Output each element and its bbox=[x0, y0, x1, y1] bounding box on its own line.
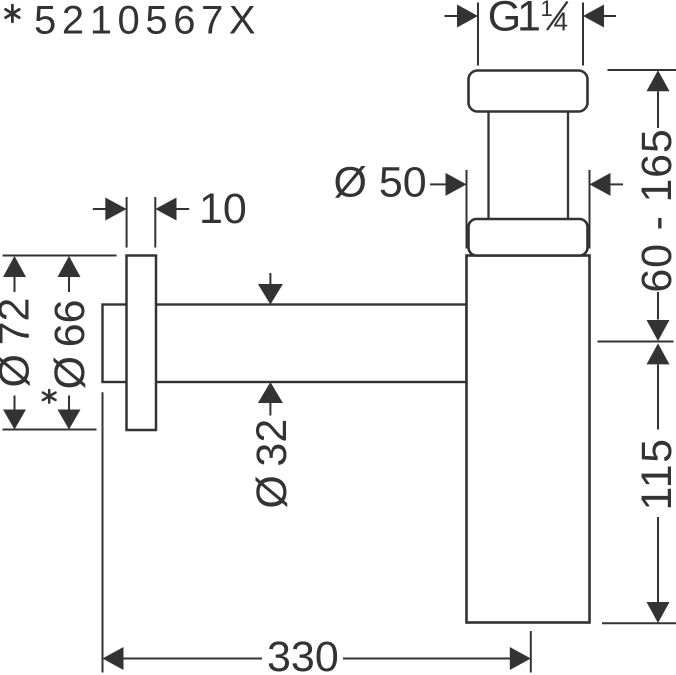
G1 1/4 right extension line bbox=[582, 3, 584, 66]
330 dimension line right segment bbox=[343, 658, 510, 660]
10 left arrowhead bbox=[105, 198, 126, 221]
pipe axis extension line (right side) bbox=[598, 341, 674, 343]
G1 1/4 left leader line bbox=[445, 15, 459, 17]
svg-text:115: 115 bbox=[633, 437, 676, 510]
svg-text:Ø 32: Ø 32 bbox=[248, 419, 296, 509]
svg-text:5210567X: 5210567X bbox=[34, 0, 261, 43]
inlet neck tube bbox=[489, 100, 569, 230]
G1 1/4 left extension line bbox=[477, 3, 479, 66]
10 left leader line bbox=[93, 208, 106, 210]
60-165 top stem bbox=[657, 91, 659, 128]
flange bottom extension line bbox=[3, 429, 97, 431]
330 left extension line (wall reference) bbox=[102, 392, 104, 672]
compression ring nut bbox=[469, 219, 588, 256]
trap body cup bbox=[467, 256, 590, 623]
G1 1/4 fraction slash bbox=[547, 2, 568, 31]
115 top arrowhead bbox=[647, 343, 670, 364]
svg-text:60 - 165: 60 - 165 bbox=[633, 128, 676, 292]
diameter 72 top stem bbox=[14, 277, 16, 292]
footnote asterisk beside diameter 66 bbox=[43, 390, 56, 403]
diameter 50 right extension line bbox=[589, 170, 591, 249]
top cap nut bbox=[469, 71, 588, 112]
svg-text:Ø 50: Ø 50 bbox=[334, 158, 427, 206]
330 right extension line (body centre) bbox=[530, 631, 532, 673]
115 bottom stem bbox=[657, 517, 659, 602]
60-165 bottom stem bbox=[657, 292, 659, 320]
diameter 50 left arrowhead bbox=[446, 173, 467, 196]
svg-text:1: 1 bbox=[517, 0, 541, 41]
G1 1/4 right arrowhead bbox=[583, 5, 604, 28]
svg-text:330: 330 bbox=[267, 633, 339, 675]
cap top extension line (right side) bbox=[608, 69, 676, 71]
diameter 66 top arrowhead bbox=[58, 256, 81, 277]
10 left extension line bbox=[126, 197, 128, 248]
diameter 32 bottom arrowhead bbox=[258, 382, 283, 403]
body bottom extension line (right side) bbox=[602, 622, 676, 624]
wall flange plate bbox=[127, 256, 157, 431]
horizontal outlet pipe bbox=[103, 305, 467, 383]
footnote asterisk of article number bbox=[6, 5, 20, 22]
diameter 72 bottom arrowhead bbox=[3, 410, 26, 430]
diameter 72 bottom stem bbox=[14, 396, 16, 411]
10 right extension line bbox=[154, 197, 156, 248]
330 dimension line left segment bbox=[124, 658, 263, 660]
330 right arrowhead bbox=[510, 647, 531, 670]
diameter 66 bottom stem bbox=[68, 396, 70, 411]
diameter 32 top arrowhead bbox=[258, 284, 283, 305]
G1 1/4 left arrowhead bbox=[457, 5, 478, 28]
diameter 66 top stem bbox=[68, 277, 70, 292]
svg-text:4: 4 bbox=[554, 6, 568, 36]
10 right arrowhead bbox=[155, 198, 176, 221]
G1 1/4 right leader line bbox=[604, 15, 616, 17]
svg-text:1: 1 bbox=[541, 0, 553, 21]
115 top stem bbox=[657, 364, 659, 429]
svg-text:Ø 72: Ø 72 bbox=[0, 298, 39, 388]
diameter 50 left extension line bbox=[466, 170, 468, 249]
diameter 32 bottom stem bbox=[269, 403, 271, 416]
60-165 bottom arrowhead bbox=[647, 320, 670, 341]
10 right leader line bbox=[176, 208, 189, 210]
diameter 32 top stem bbox=[269, 273, 271, 285]
diameter 50 right leader line bbox=[611, 183, 624, 185]
svg-text:10: 10 bbox=[199, 185, 247, 233]
diameter 66 bottom arrowhead bbox=[58, 410, 81, 430]
diameter 50 left leader line bbox=[430, 183, 446, 185]
flange top extension line bbox=[3, 255, 117, 257]
svg-text:Ø 66: Ø 66 bbox=[46, 299, 94, 389]
diameter 50 right arrowhead bbox=[590, 173, 611, 196]
330 left arrowhead bbox=[103, 647, 124, 670]
60-165 top arrowhead bbox=[647, 70, 670, 91]
115 bottom arrowhead bbox=[647, 602, 670, 623]
diameter 72 top arrowhead bbox=[3, 256, 26, 277]
